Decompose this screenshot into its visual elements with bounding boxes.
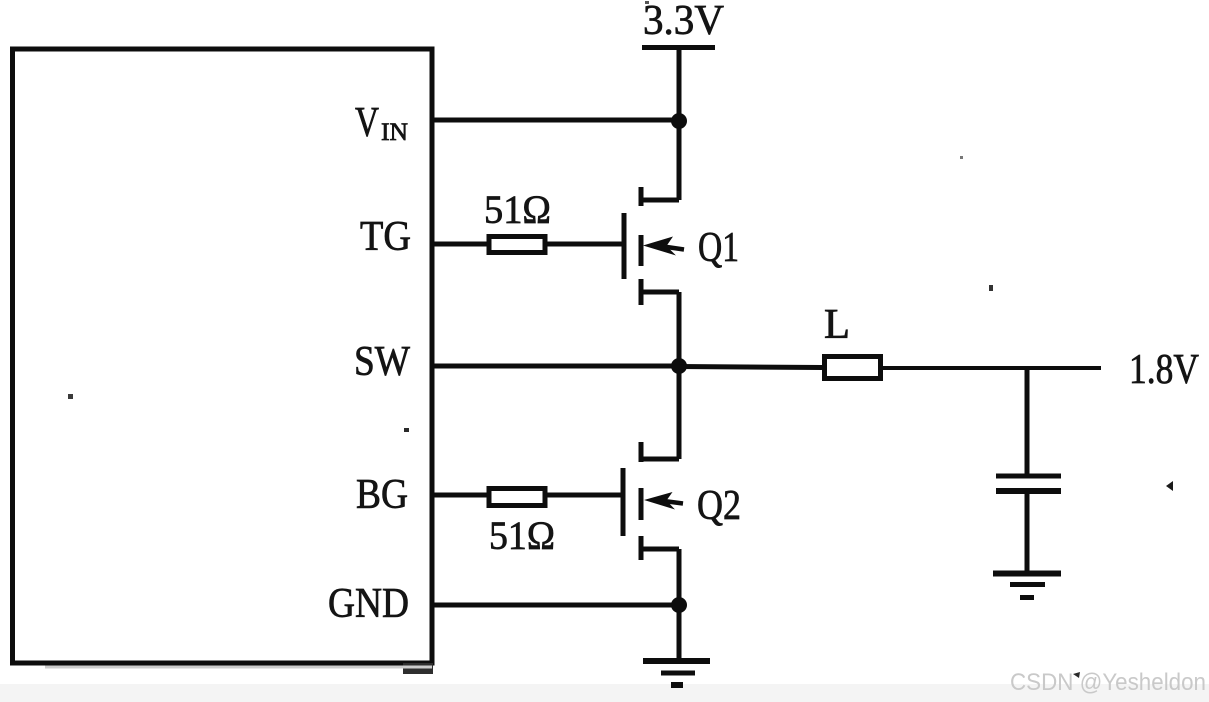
ground (main) [643,661,710,685]
svg-text:SW: SW [354,339,410,385]
svg-text:3.3V: 3.3V [643,0,724,44]
wire Q1 source to node B [677,292,682,459]
svg-text:51Ω: 51Ω [484,187,551,232]
node B junction dot [671,358,687,374]
scan smudge under IC bottom edge [45,666,432,669]
speck [404,428,409,432]
wire BG pin to resistor R2 [432,493,487,498]
inductor L [825,357,881,379]
resistor R2 51ohm [489,489,545,506]
svg-text:IN: IN [381,119,408,146]
speck [645,1,649,4]
wire node B to inductor L [679,367,822,368]
svg-text:V: V [355,100,379,146]
speck [68,394,73,399]
wire VIN pin to node A [432,118,679,123]
resistor R1 51ohm [489,237,545,253]
transistor Q1 [624,187,684,305]
svg-text:1.8V: 1.8V [1129,347,1199,393]
svg-text:BG: BG [356,472,408,518]
bottom gray band [0,684,1209,702]
wire R2 to Q2 gate [547,493,625,498]
speck [1166,481,1173,491]
capacitor C1 [996,476,1061,491]
wire GND pin to node C [432,603,679,608]
wire R1 to Q1 gate [547,242,626,247]
ground (output) [993,574,1061,598]
svg-text:TG: TG [360,214,411,260]
speck [960,156,963,159]
svg-text:Q1: Q1 [698,225,739,271]
svg-text:GND: GND [328,581,409,627]
svg-text:Q2: Q2 [697,483,741,529]
scan smudge under IC corner [403,663,433,674]
transistor Q2 [623,442,683,560]
wire Q2 source to node C [677,549,682,661]
wire SW pin to node B [432,364,679,369]
power rail 3.3V [642,45,715,50]
wire L to output [883,366,1101,370]
svg-text:CSDN @Yesheldon: CSDN @Yesheldon [1010,669,1206,696]
wire rail to node A [677,47,682,200]
speck [989,285,993,291]
IC body U1 [13,49,433,663]
node A junction dot [671,113,687,129]
speck [1073,672,1080,678]
wire output to capacitor C1 [1025,368,1030,474]
node C junction dot [671,597,687,613]
wire C1 to ground [1025,493,1030,573]
svg-text:51Ω: 51Ω [489,513,555,558]
wire TG pin to resistor R1 [432,242,487,247]
pin label VIN [355,100,408,146]
svg-text:L: L [824,302,850,348]
